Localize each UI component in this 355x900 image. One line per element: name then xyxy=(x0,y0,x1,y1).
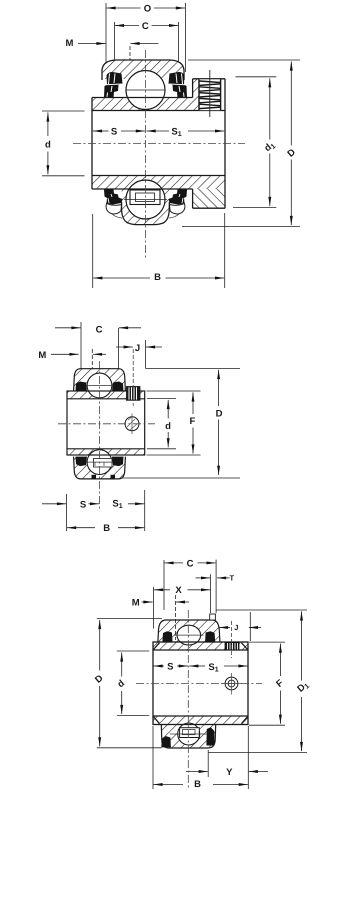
svg-text:T: T xyxy=(230,573,235,582)
svg-text:S: S xyxy=(167,661,173,672)
svg-text:X: X xyxy=(175,585,182,596)
svg-text:J: J xyxy=(234,623,238,632)
svg-text:C: C xyxy=(187,558,194,569)
svg-text:d: d xyxy=(165,421,171,432)
svg-text:B: B xyxy=(103,523,110,534)
svg-text:B: B xyxy=(194,779,201,790)
svg-text:C: C xyxy=(142,21,149,32)
svg-text:J: J xyxy=(135,343,140,354)
svg-text:d: d xyxy=(45,140,51,151)
svg-text:O: O xyxy=(144,4,151,15)
svg-text:M: M xyxy=(132,598,140,609)
svg-text:D: D xyxy=(216,408,223,419)
svg-text:M: M xyxy=(38,350,46,361)
svg-text:M: M xyxy=(66,38,74,49)
svg-text:S: S xyxy=(80,500,86,511)
svg-text:S: S xyxy=(111,127,117,138)
svg-text:C: C xyxy=(96,325,103,336)
svg-text:Y: Y xyxy=(226,767,233,778)
svg-text:B: B xyxy=(154,272,161,283)
svg-text:F: F xyxy=(189,416,195,427)
